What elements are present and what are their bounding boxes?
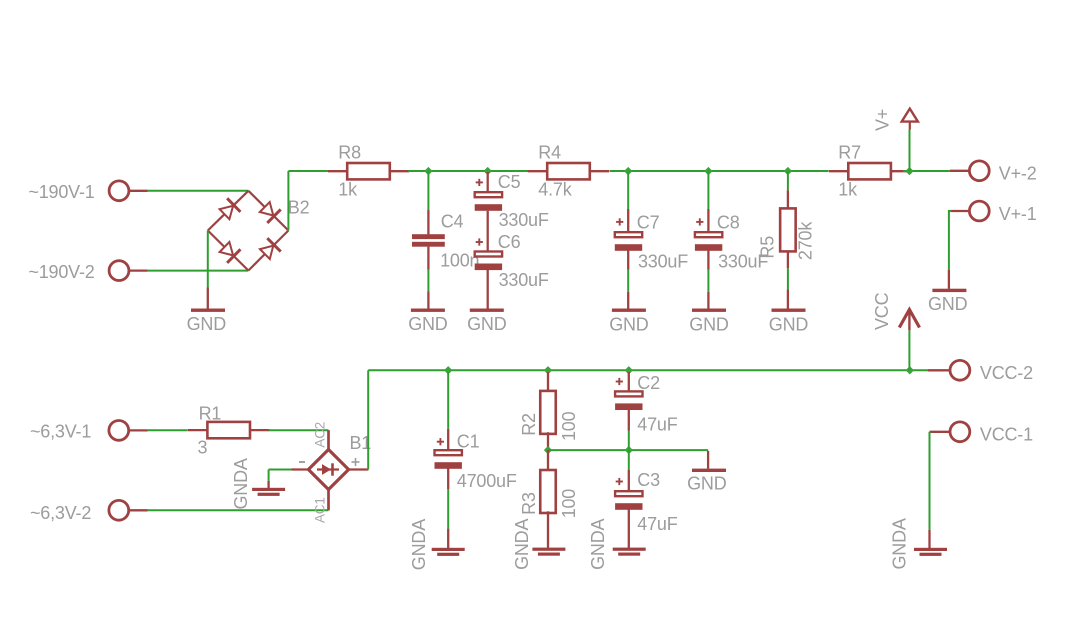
pin stub C6 bottom <box>487 270 489 309</box>
svg-text:GND: GND <box>689 315 729 335</box>
svg-text:C8: C8 <box>717 213 740 233</box>
svg-text:GND: GND <box>187 314 227 334</box>
supply symbol VCC <box>899 310 919 331</box>
svg-text:C3: C3 <box>637 470 660 490</box>
svg-text:~6,3V-1: ~6,3V-1 <box>30 422 91 442</box>
resistor R8 <box>328 163 409 179</box>
svg-text:~6,3V-2: ~6,3V-2 <box>30 503 91 523</box>
node junction at R2 <box>544 366 552 374</box>
pin stub B1 minus <box>292 468 309 470</box>
svg-text:GNDA: GNDA <box>889 518 909 569</box>
resistor R3 <box>540 470 556 513</box>
ground GND mid <box>692 469 726 472</box>
wire B1 minus down <box>268 470 270 481</box>
svg-text:4700uF: 4700uF <box>457 471 517 491</box>
ground GNDA under B1 <box>252 488 285 496</box>
bridge B2 diode left-top <box>208 191 249 231</box>
ground GND under C7 <box>612 309 646 312</box>
wire VCC rail <box>368 369 927 371</box>
capacitor C5 <box>475 192 502 211</box>
wire B1 minus <box>269 469 292 471</box>
pin stub R2 top <box>547 372 549 392</box>
pin stub B1 AC1 <box>327 490 330 511</box>
svg-text:GND: GND <box>687 474 727 494</box>
resistor R2 <box>540 391 556 434</box>
pin stub ~190V-2 <box>129 269 148 271</box>
svg-text:GNDA: GNDA <box>588 519 608 570</box>
node junction at R5 <box>784 167 792 175</box>
svg-text:100: 100 <box>559 489 579 519</box>
wire VCC drop <box>908 330 910 370</box>
ground GND under V+-1 <box>932 289 966 292</box>
wire R4 to R7 rail <box>610 170 829 172</box>
node junction R2-R3 <box>544 446 552 454</box>
svg-text:330uF: 330uF <box>499 210 549 230</box>
svg-text:GNDA: GNDA <box>231 458 251 509</box>
pin stub C1 bottom <box>447 468 449 489</box>
wire B2 minus to GND <box>207 231 209 288</box>
pin stub R5 bottom <box>787 251 789 268</box>
wire B2 plus up <box>287 171 289 231</box>
svg-text:1k: 1k <box>338 180 358 200</box>
pin stub C8 top <box>707 209 709 232</box>
svg-text:GNDA: GNDA <box>409 519 429 570</box>
pin stub C4 top <box>427 210 429 234</box>
wire C4 to GND <box>427 270 429 292</box>
ground GNDA under VCC-1 <box>914 548 947 556</box>
wire C1 to GNDA <box>447 489 449 529</box>
ground GND under C6 <box>470 309 504 312</box>
pin VCC-1 <box>950 422 970 442</box>
svg-text:R8: R8 <box>338 143 361 163</box>
pin stub GND C4 <box>427 292 429 309</box>
svg-text:~190V-1: ~190V-1 <box>28 182 94 202</box>
wire C8 to GND <box>707 270 709 292</box>
svg-text:~190V-2: ~190V-2 <box>28 262 94 282</box>
wire junction to C4 <box>427 171 429 210</box>
svg-text:R1: R1 <box>199 404 222 424</box>
pin stub B1 AC2 <box>327 430 330 450</box>
wire VCC-1 to GNDA <box>929 432 931 530</box>
ground GND under C8 <box>692 309 726 312</box>
svg-text:100n: 100n <box>440 250 479 270</box>
capacitor C1 <box>435 450 462 469</box>
pin stub C3 bottom <box>628 509 630 548</box>
pin stub R3 bottom <box>547 511 549 548</box>
svg-text:B2: B2 <box>288 198 310 218</box>
pin V+-1 <box>969 201 989 221</box>
svg-text:GND: GND <box>928 294 968 314</box>
pin VCC-2 <box>950 360 970 380</box>
pin stub GND C8 <box>707 292 709 309</box>
capacitor C4 <box>412 234 445 247</box>
pin stub C5 top <box>487 172 489 192</box>
pin stub VCC-1 <box>930 431 950 433</box>
wire C7 to GND <box>627 270 629 292</box>
wire junction to C8 <box>707 171 709 209</box>
pin stub R2 bottom <box>547 432 549 450</box>
wire junction to R5 <box>787 171 789 190</box>
plus mark C7 <box>616 218 623 225</box>
pin ~190V-2 <box>109 261 129 281</box>
capacitor C8 <box>695 232 722 251</box>
svg-text:R2: R2 <box>519 413 539 436</box>
wire C5 to C6 <box>487 211 489 252</box>
wire V+-1 to GND <box>949 211 952 270</box>
plus mark C3 <box>616 478 623 485</box>
svg-text:VCC-1: VCC-1 <box>980 424 1033 444</box>
node junction at C8 <box>704 167 712 175</box>
pin stub GNDA B1 <box>267 481 269 488</box>
node junction at C1 <box>444 366 452 374</box>
plus mark C6 <box>476 238 483 245</box>
svg-text:C4: C4 <box>441 212 464 232</box>
resistor R1 <box>188 422 269 438</box>
node junction at C7 <box>624 167 632 175</box>
svg-text:GND: GND <box>408 314 448 334</box>
ground GNDA under C1 <box>432 548 465 556</box>
resistor R7 <box>829 163 910 179</box>
wire R7 to V+-2 <box>903 170 950 172</box>
plus mark B1 <box>352 458 360 466</box>
wire mid net <box>548 449 708 451</box>
bridge B2 diode bottom-right <box>248 231 288 271</box>
svg-text:V+-1: V+-1 <box>999 204 1037 224</box>
wire C2 to mid net <box>628 431 630 451</box>
pin stub GNDA C1 <box>447 529 449 549</box>
bridge B2 diode left-bottom <box>208 231 249 271</box>
pin stub C7 top <box>627 209 629 232</box>
wire net AC1 to bridge B1 <box>148 509 329 511</box>
svg-text:3: 3 <box>198 438 208 458</box>
ground GND under C4 <box>411 309 445 312</box>
pin stub B2 GND <box>207 288 209 309</box>
plus mark C1 <box>437 438 444 445</box>
pin stub R3 top <box>547 450 549 471</box>
bridge B2 diode top-right <box>248 191 288 231</box>
svg-text:47uF: 47uF <box>637 414 677 434</box>
ground GNDA under R3 <box>532 548 565 556</box>
pin stub C2 top <box>628 372 630 391</box>
pin stub B1 plus <box>349 468 369 470</box>
pin stub GND C7 <box>627 292 629 309</box>
svg-text:GND: GND <box>467 314 507 334</box>
svg-text:C6: C6 <box>498 232 521 252</box>
bridge rectifier B1 <box>308 450 348 490</box>
resistor R5 <box>780 208 796 251</box>
wire junction to C3 <box>628 450 630 470</box>
pin stub C2 bottom <box>628 410 630 431</box>
pin stub ~6,3V-1 <box>129 429 148 431</box>
pin stub C1 top <box>447 429 449 451</box>
node junction at C5 <box>484 167 492 175</box>
ground GND under B2 <box>191 309 225 312</box>
wire junction to C7 <box>627 171 629 209</box>
pin ~6,3V-1 <box>109 421 129 441</box>
capacitor C3 <box>615 491 642 510</box>
svg-text:GND: GND <box>769 315 809 335</box>
pin stub ~6,3V-2 <box>129 509 148 511</box>
wire R5 to GND <box>787 268 789 289</box>
wire R8 to R4 rail <box>408 170 528 172</box>
svg-text:C2: C2 <box>637 373 660 393</box>
svg-text:100: 100 <box>559 411 579 441</box>
capacitor C2 <box>615 391 642 410</box>
node junction V+ rail <box>905 167 913 175</box>
wire B1 plus up <box>367 370 369 469</box>
pin V+-2 <box>969 161 989 181</box>
svg-text:R3: R3 <box>519 492 539 515</box>
pin stub ~190V-1 <box>129 190 148 192</box>
svg-text:C7: C7 <box>637 213 660 233</box>
pin stub V+-2 <box>950 170 969 172</box>
wire junction to C1 <box>447 372 449 429</box>
svg-text:47uF: 47uF <box>637 514 677 534</box>
pin stub R5 top <box>787 190 789 209</box>
pin stub GND R5 <box>787 289 789 308</box>
supply symbol V+ <box>902 109 918 130</box>
node junction VCC symbol <box>906 366 914 374</box>
wire V+ drop <box>909 130 911 172</box>
svg-text:R4: R4 <box>538 143 561 163</box>
plus mark C8 <box>696 218 703 225</box>
svg-text:V+-2: V+-2 <box>999 164 1037 184</box>
plus mark C2 <box>616 378 623 385</box>
capacitor C7 <box>615 232 642 251</box>
svg-text:V+: V+ <box>872 109 892 131</box>
node junction at C4 <box>424 167 432 175</box>
pin stub GNDA VCC-1 <box>928 530 930 548</box>
svg-text:R5: R5 <box>758 236 778 259</box>
capacitor C6 <box>475 252 502 271</box>
wire net AC1 to bridge B2 top <box>148 190 249 192</box>
svg-text:AC1: AC1 <box>312 497 327 523</box>
svg-text:AC2: AC2 <box>312 422 327 448</box>
svg-text:VCC-2: VCC-2 <box>980 363 1033 383</box>
pin stub C3 top <box>628 470 630 491</box>
pin stub V+-1 <box>951 210 969 212</box>
svg-text:330uF: 330uF <box>499 270 549 290</box>
resistor R4 <box>528 163 609 179</box>
node junction mid at C3 <box>625 446 633 454</box>
pin ~6,3V-2 <box>109 500 129 520</box>
ground GND under R5 <box>772 309 806 312</box>
svg-text:C1: C1 <box>457 432 480 452</box>
svg-text:GND: GND <box>609 315 649 335</box>
svg-text:C5: C5 <box>498 172 521 192</box>
svg-text:1k: 1k <box>838 180 858 200</box>
node junction at C2 <box>625 366 633 374</box>
pin stub C4 bottom <box>427 247 429 270</box>
plus mark C5 <box>476 179 483 186</box>
ground GNDA under C3 <box>613 548 646 556</box>
svg-text:330uF: 330uF <box>638 252 688 272</box>
svg-text:VCC: VCC <box>872 292 892 330</box>
wire B2 plus to R8 <box>288 170 328 172</box>
wire to R1 <box>148 429 188 431</box>
pin stub C7 bottom <box>627 250 629 269</box>
wire net AC2 to bridge B2 bottom <box>148 270 249 272</box>
pin ~190V-1 <box>109 181 129 201</box>
pin stub GND mid <box>707 451 709 469</box>
minus mark B1 <box>299 461 305 463</box>
svg-text:GNDA: GNDA <box>512 519 532 570</box>
wire R1 to B1 AC2 <box>269 429 329 431</box>
pin stub GND V+-1 <box>948 270 950 289</box>
svg-text:4.7k: 4.7k <box>538 179 572 199</box>
svg-text:270k: 270k <box>796 221 816 260</box>
pin stub C8 bottom <box>707 250 709 269</box>
pin stub VCC-2 <box>928 369 950 371</box>
svg-text:R7: R7 <box>838 143 861 163</box>
